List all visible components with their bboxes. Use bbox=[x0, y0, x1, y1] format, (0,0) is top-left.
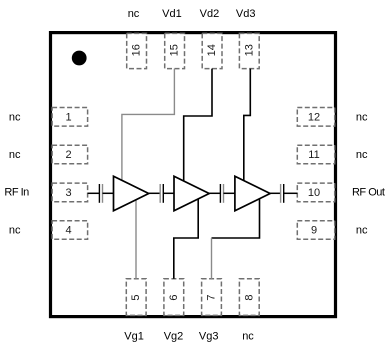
svg-text:6: 6 bbox=[168, 294, 180, 300]
pin 15 box bbox=[165, 33, 185, 68]
svg-text:Vg2: Vg2 bbox=[164, 331, 184, 343]
svg-text:nc: nc bbox=[9, 149, 21, 161]
svg-text:Vg1: Vg1 bbox=[124, 331, 144, 343]
wire Vg3 net (U3 to pin 7, black part) bbox=[212, 199, 260, 238]
svg-text:9: 9 bbox=[311, 225, 317, 237]
pin 8 box bbox=[239, 279, 259, 316]
op-amp U3 (amplifier stage 3) bbox=[235, 176, 270, 211]
pin 12 box bbox=[297, 108, 334, 127]
svg-text:Vd2: Vd2 bbox=[200, 8, 220, 20]
svg-text:1: 1 bbox=[66, 111, 72, 123]
wire pin3 to C1 bbox=[88, 192, 100, 194]
svg-text:8: 8 bbox=[243, 294, 255, 300]
pin 2 box bbox=[52, 145, 88, 164]
wire C4 to pin 10 bbox=[284, 192, 298, 194]
pin 11 box bbox=[297, 145, 334, 164]
wire Vg3 net (vertical drop to pin 7, gray part) bbox=[211, 238, 213, 279]
svg-text:13: 13 bbox=[243, 44, 255, 56]
svg-text:Vg3: Vg3 bbox=[199, 331, 219, 343]
svg-text:3: 3 bbox=[66, 187, 72, 199]
pin 1 indicator dot bbox=[72, 51, 87, 66]
wire C1 to U1 bbox=[103, 192, 114, 194]
wire Vd1 net (pin 15 to U1) bbox=[122, 69, 174, 181]
svg-text:5: 5 bbox=[130, 294, 142, 300]
capacitor C1 bbox=[99, 184, 102, 203]
wire Vg1 net (U1 to pin 5) bbox=[135, 200, 137, 279]
svg-text:15: 15 bbox=[169, 44, 181, 56]
pin 16 box bbox=[127, 33, 147, 68]
svg-text:RF Out: RF Out bbox=[352, 186, 385, 198]
svg-text:nc: nc bbox=[128, 8, 140, 20]
wire C3 to U3 bbox=[224, 192, 235, 194]
pin 10 box bbox=[297, 183, 334, 202]
wire C2 to U2 bbox=[163, 192, 174, 194]
svg-text:7: 7 bbox=[206, 294, 218, 300]
capacitor C3 bbox=[220, 184, 223, 203]
svg-text:10: 10 bbox=[308, 187, 320, 199]
svg-text:Vd3: Vd3 bbox=[236, 8, 256, 20]
wire U2 to C3 bbox=[209, 192, 220, 194]
svg-text:nc: nc bbox=[356, 149, 368, 161]
svg-text:nc: nc bbox=[356, 225, 368, 237]
svg-text:4: 4 bbox=[66, 225, 72, 237]
svg-text:nc: nc bbox=[242, 331, 254, 343]
op-amp U2 (amplifier stage 2) bbox=[174, 176, 209, 211]
svg-text:nc: nc bbox=[356, 111, 368, 123]
wire U1 to C2 bbox=[149, 192, 161, 194]
svg-text:nc: nc bbox=[9, 111, 21, 123]
package outline bbox=[51, 33, 336, 317]
svg-text:RF In: RF In bbox=[4, 186, 29, 198]
svg-text:11: 11 bbox=[308, 149, 319, 161]
pin 4 box bbox=[52, 221, 88, 240]
capacitor C4 bbox=[281, 184, 284, 203]
svg-text:12: 12 bbox=[308, 111, 320, 123]
pin 9 box bbox=[297, 221, 334, 240]
wire Vd2 net (pin 14 to U2) bbox=[184, 69, 212, 182]
svg-text:14: 14 bbox=[206, 44, 218, 56]
pin 3 box bbox=[52, 183, 88, 202]
pin 5 box bbox=[126, 279, 146, 316]
wire Vg2 net (U2 to pin 6) bbox=[174, 199, 198, 278]
pin 1 box bbox=[52, 108, 88, 127]
pin 14 box bbox=[202, 33, 222, 68]
pin 6 box bbox=[164, 279, 184, 316]
capacitor C2 bbox=[160, 184, 163, 203]
svg-text:2: 2 bbox=[66, 149, 72, 161]
wire Vd3 net (pin 13 to U3) bbox=[244, 69, 251, 181]
wire U3 to C4 bbox=[270, 192, 281, 194]
svg-text:nc: nc bbox=[9, 225, 21, 237]
svg-text:Vd1: Vd1 bbox=[162, 8, 182, 20]
op-amp U1 (amplifier stage 1) bbox=[114, 176, 149, 211]
svg-text:16: 16 bbox=[131, 44, 143, 56]
pin 13 box bbox=[239, 33, 259, 68]
pin 7 box bbox=[202, 279, 222, 316]
